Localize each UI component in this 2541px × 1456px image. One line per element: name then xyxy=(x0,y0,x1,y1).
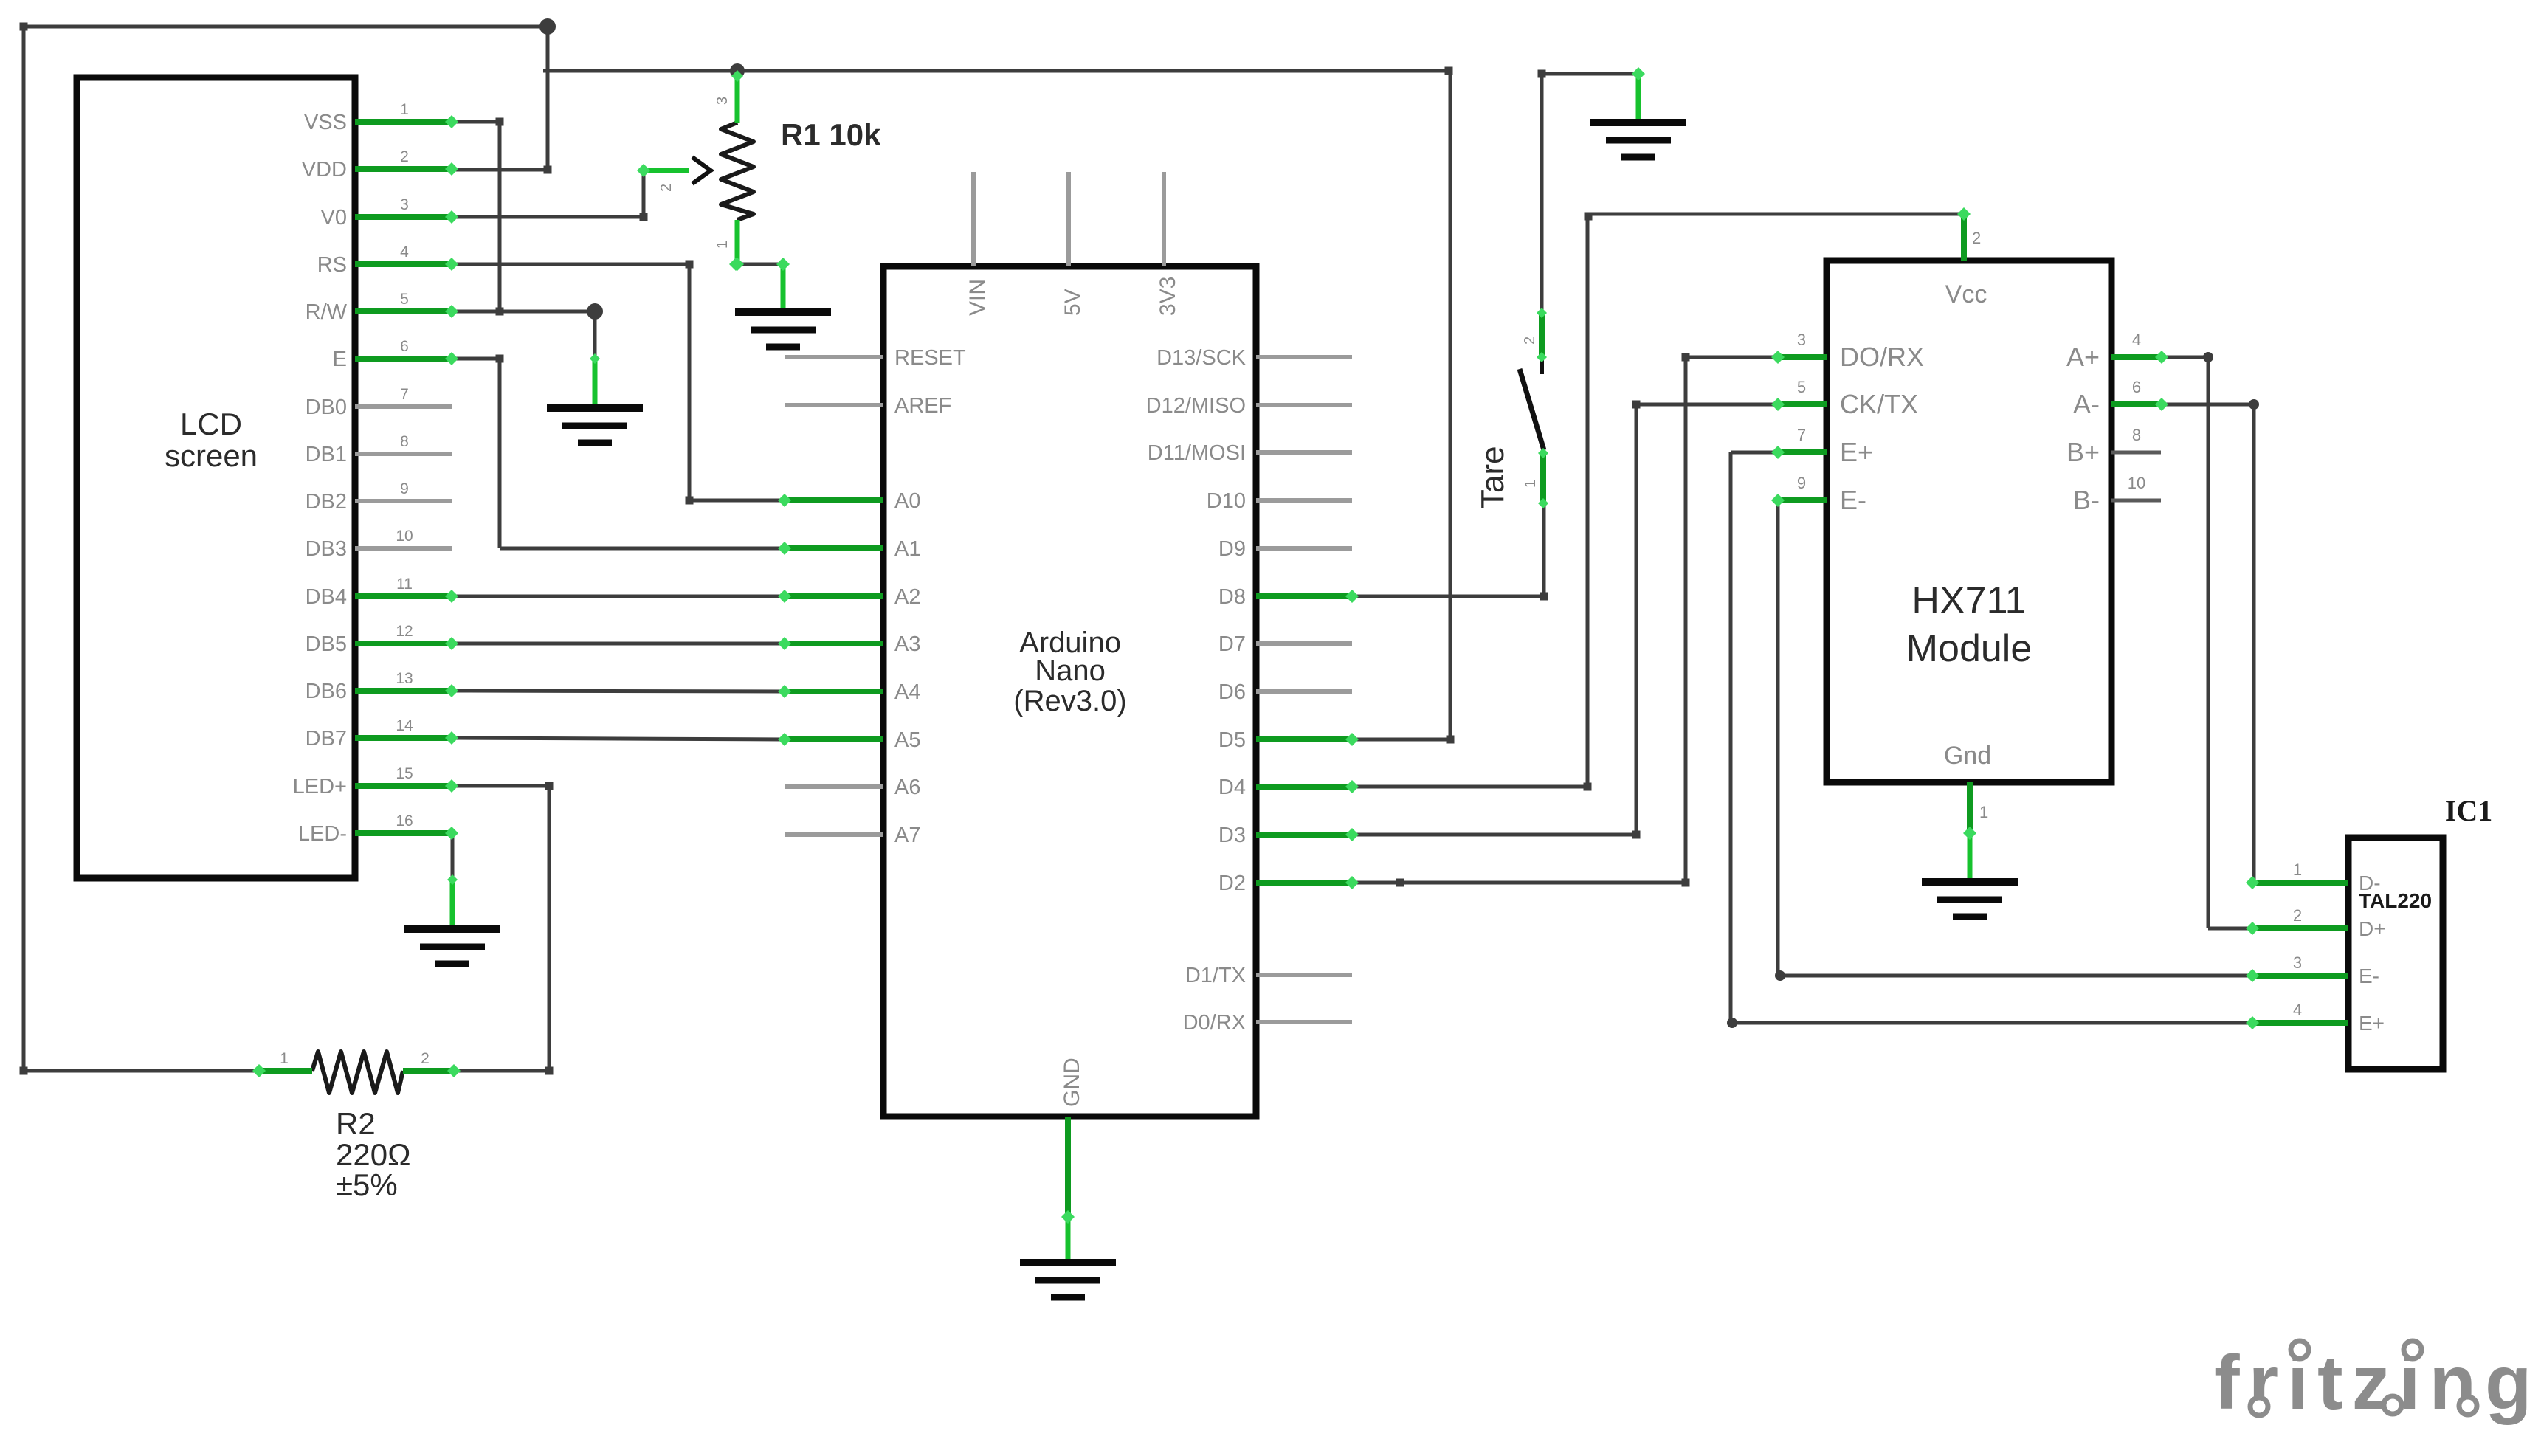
svg-text:RS: RS xyxy=(317,253,347,277)
svg-text:DB7: DB7 xyxy=(306,727,347,751)
svg-text:Tare: Tare xyxy=(1475,446,1511,509)
svg-text:IC1: IC1 xyxy=(2445,794,2492,827)
svg-text:B+: B+ xyxy=(2066,437,2100,467)
svg-text:R2: R2 xyxy=(336,1106,376,1141)
svg-text:E-: E- xyxy=(1840,485,1866,515)
svg-text:VSS: VSS xyxy=(304,111,347,134)
svg-text:10: 10 xyxy=(396,528,413,545)
svg-text:2: 2 xyxy=(2293,906,2302,925)
svg-text:15: 15 xyxy=(396,765,413,782)
svg-text:D5: D5 xyxy=(1218,728,1246,752)
svg-text:D+: D+ xyxy=(2359,917,2386,940)
svg-text:12: 12 xyxy=(396,623,413,640)
svg-text:D8: D8 xyxy=(1218,585,1246,609)
svg-text:14: 14 xyxy=(396,717,413,734)
svg-text:D2: D2 xyxy=(1218,872,1246,895)
svg-text:D7: D7 xyxy=(1218,632,1246,656)
svg-text:D9: D9 xyxy=(1218,537,1246,561)
svg-text:8: 8 xyxy=(400,433,409,450)
svg-text:3V3: 3V3 xyxy=(1156,277,1180,316)
svg-text:D1/TX: D1/TX xyxy=(1185,964,1246,987)
svg-text:E: E xyxy=(333,348,347,371)
svg-text:E-: E- xyxy=(2359,965,2379,987)
svg-text:D10: D10 xyxy=(1207,489,1246,513)
svg-text:3: 3 xyxy=(1797,331,1806,349)
svg-text:1: 1 xyxy=(400,101,409,118)
svg-text:LED-: LED- xyxy=(298,822,347,846)
svg-text:9: 9 xyxy=(400,480,409,497)
svg-text:LED+: LED+ xyxy=(293,775,347,798)
svg-text:screen: screen xyxy=(165,438,258,473)
svg-text:VIN: VIN xyxy=(965,279,990,316)
svg-text:D12/MISO: D12/MISO xyxy=(1146,394,1246,418)
svg-text:2: 2 xyxy=(421,1050,430,1067)
svg-text:1: 1 xyxy=(1523,480,1539,488)
svg-text:5: 5 xyxy=(1797,378,1806,396)
svg-text:RESET: RESET xyxy=(894,346,966,370)
svg-text:16: 16 xyxy=(396,812,413,829)
svg-text:DO/RX: DO/RX xyxy=(1840,342,1924,372)
svg-text:220Ω: 220Ω xyxy=(336,1137,410,1172)
svg-text:7: 7 xyxy=(400,386,409,403)
svg-text:4: 4 xyxy=(2293,1001,2302,1019)
svg-text:A5: A5 xyxy=(894,728,920,752)
svg-text:LCD: LCD xyxy=(180,407,242,441)
svg-text:VDD: VDD xyxy=(302,158,347,182)
svg-text:D11/MOSI: D11/MOSI xyxy=(1148,441,1246,465)
svg-text:AREF: AREF xyxy=(894,394,951,418)
svg-text:5: 5 xyxy=(400,291,409,308)
svg-text:A-: A- xyxy=(2073,389,2100,419)
svg-text:2: 2 xyxy=(400,148,409,165)
svg-text:A3: A3 xyxy=(894,632,920,656)
svg-text:A0: A0 xyxy=(894,489,920,513)
svg-text:E+: E+ xyxy=(1840,437,1873,467)
svg-text:E+: E+ xyxy=(2359,1012,2385,1035)
svg-text:D6: D6 xyxy=(1218,680,1246,704)
svg-text:A7: A7 xyxy=(894,824,920,847)
svg-text:CK/TX: CK/TX xyxy=(1840,389,1918,419)
svg-text:A+: A+ xyxy=(2066,342,2100,372)
svg-text:DB1: DB1 xyxy=(306,443,347,466)
svg-text:1: 1 xyxy=(714,241,731,249)
svg-text:2: 2 xyxy=(658,184,675,192)
svg-text:6: 6 xyxy=(2132,378,2141,396)
svg-text:A1: A1 xyxy=(894,537,920,561)
svg-text:DB2: DB2 xyxy=(306,490,347,514)
svg-text:13: 13 xyxy=(396,670,413,687)
svg-text:D0/RX: D0/RX xyxy=(1183,1011,1246,1035)
svg-text:1: 1 xyxy=(280,1050,289,1067)
svg-text:A2: A2 xyxy=(894,585,920,609)
svg-text:Vcc: Vcc xyxy=(1945,280,1987,308)
svg-text:HX711: HX711 xyxy=(1911,579,2026,622)
svg-text:3: 3 xyxy=(2293,953,2302,972)
svg-text:D3: D3 xyxy=(1218,824,1246,847)
svg-text:8: 8 xyxy=(2132,426,2141,444)
svg-text:5V: 5V xyxy=(1061,289,1085,316)
svg-text:DB5: DB5 xyxy=(306,632,347,656)
svg-text:DB0: DB0 xyxy=(306,396,347,419)
svg-text:B-: B- xyxy=(2073,485,2100,515)
svg-text:TAL220: TAL220 xyxy=(2359,889,2432,912)
svg-text:V0: V0 xyxy=(321,206,347,230)
svg-text:1: 1 xyxy=(1979,803,1988,821)
svg-text:11: 11 xyxy=(396,576,413,593)
svg-text:Module: Module xyxy=(1906,627,2033,670)
svg-text:DB6: DB6 xyxy=(306,680,347,703)
svg-text:R/W: R/W xyxy=(306,300,348,324)
svg-text:3: 3 xyxy=(400,196,409,213)
svg-text:±5%: ±5% xyxy=(336,1167,398,1202)
svg-text:A6: A6 xyxy=(894,776,920,799)
svg-text:DB4: DB4 xyxy=(306,585,347,609)
svg-text:2: 2 xyxy=(1972,229,1981,247)
svg-text:D4: D4 xyxy=(1218,776,1246,799)
svg-text:A4: A4 xyxy=(894,680,920,704)
svg-text:10: 10 xyxy=(2128,474,2145,492)
svg-text:DB3: DB3 xyxy=(306,537,347,561)
svg-text:4: 4 xyxy=(400,244,409,261)
svg-text:3: 3 xyxy=(714,97,731,105)
svg-text:6: 6 xyxy=(400,338,409,355)
svg-text:D13/SCK: D13/SCK xyxy=(1156,346,1247,370)
svg-text:2: 2 xyxy=(1522,337,1538,345)
svg-text:R1 10k: R1 10k xyxy=(781,117,881,152)
svg-text:(Rev3.0): (Rev3.0) xyxy=(1013,685,1126,717)
svg-text:GND: GND xyxy=(1060,1058,1084,1107)
svg-text:4: 4 xyxy=(2132,331,2141,349)
svg-text:Gnd: Gnd xyxy=(1944,742,1991,770)
svg-text:7: 7 xyxy=(1797,426,1806,444)
svg-text:9: 9 xyxy=(1797,474,1806,492)
svg-text:1: 1 xyxy=(2293,860,2302,879)
svg-text:Nano: Nano xyxy=(1035,655,1106,687)
